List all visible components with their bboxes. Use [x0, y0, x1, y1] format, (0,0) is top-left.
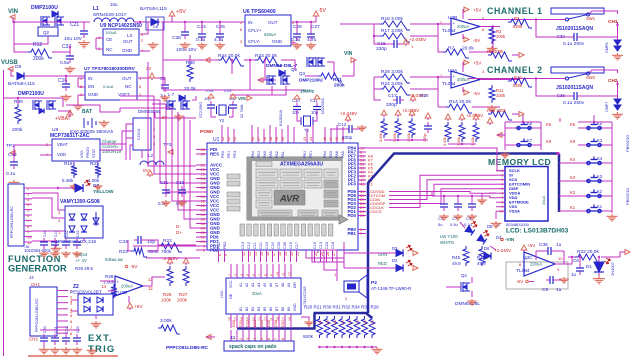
svg-text:D-: D- — [176, 224, 181, 229]
svg-text:ATXMEGA256A3U: ATXMEGA256A3U — [280, 162, 323, 168]
svg-text:TP3: TP3 — [163, 142, 172, 147]
svg-text:CHANNEL 2: CHANNEL 2 — [487, 65, 543, 75]
svg-text:43: 43 — [233, 137, 237, 141]
svg-text:+5V: +5V — [527, 243, 536, 248]
svg-text:1.00k: 1.00k — [88, 178, 100, 183]
U1 grey die photo — [247, 157, 342, 220]
wire U3A output — [480, 79, 520, 81]
svg-text:PD0: PD0 — [347, 213, 356, 218]
bus thick navy ladder bar — [237, 327, 315, 330]
svg-text:C43: C43 — [76, 230, 80, 237]
svg-text:J3: J3 — [230, 335, 235, 340]
svg-text:330p: 330p — [376, 46, 387, 52]
svg-text:GND: GND — [272, 39, 283, 44]
transistor Q2 symbol — [41, 16, 50, 26]
svg-text:C21: C21 — [259, 242, 263, 249]
wire left edge long vertical — [3, 70, 5, 356]
svg-text:VIN: VIN — [8, 9, 18, 15]
keyboard wires right column — [578, 127, 586, 129]
svg-text:YELLOW: YELLOW — [93, 189, 114, 195]
svg-text:NC: NC — [125, 84, 132, 89]
svg-text:+5V: +5V — [473, 61, 482, 66]
wire LED chain — [460, 222, 465, 228]
svg-text:6: 6 — [267, 338, 271, 340]
svg-text:300k: 300k — [148, 249, 159, 255]
svg-text:750k: 750k — [161, 249, 172, 255]
svg-text:-5V: -5V — [318, 8, 326, 14]
wire U8 STAT to CON4 — [100, 124, 133, 144]
svg-text:R19: R19 — [64, 161, 73, 166]
resistor trio R5 R6 R8 3.00k — [381, 118, 387, 138]
svg-text:10k: 10k — [371, 320, 375, 325]
svg-text:42: 42 — [227, 137, 231, 141]
svg-text:330p: 330p — [342, 135, 353, 140]
svg-text:PE2: PE2 — [257, 151, 261, 158]
svg-text:46: 46 — [251, 137, 255, 141]
wire U3A -5V supply — [462, 87, 464, 92]
svg-text:SW1: SW1 — [586, 16, 596, 21]
wire U6 OUT — [291, 21, 316, 23]
crystal Y1 16MHz — [301, 116, 313, 126]
svg-text:C40: C40 — [43, 230, 47, 237]
svg-text:C14: C14 — [206, 88, 214, 93]
svg-text:U6 TPS60400: U6 TPS60400 — [243, 9, 276, 15]
svg-text:DMP2100U: DMP2100U — [31, 5, 58, 11]
transistor Q6 DMN65-D8L-7 (left) — [167, 100, 176, 110]
svg-text:C25: C25 — [216, 24, 225, 30]
svg-text:10: 10 — [558, 256, 563, 261]
svg-text:330p: 330p — [423, 134, 427, 142]
power +2.048V near C17 — [410, 95, 416, 100]
wire PB4 to LCD SCLK — [366, 148, 505, 171]
svg-text:10k: 10k — [318, 320, 322, 325]
svg-text:PA5: PA5 — [341, 151, 345, 158]
wire C34/R23 loop — [128, 240, 131, 251]
ground D1 — [593, 276, 605, 284]
ground LCD VSS — [495, 211, 497, 219]
svg-text:B2: B2 — [245, 307, 249, 311]
svg-text:C6: C6 — [573, 258, 579, 263]
svg-text:C31: C31 — [160, 180, 169, 185]
svg-text:200uA: 200uA — [457, 77, 469, 82]
svg-text:200uA: 200uA — [457, 24, 469, 29]
svg-text:10k: 10k — [356, 320, 360, 325]
wire LCDCLK to LCD SI — [389, 175, 496, 207]
capacitor row C1 C7 C4 (decoupling) — [443, 196, 445, 200]
svg-text:C23: C23 — [265, 242, 269, 249]
U1 left small cell boxes lower — [227, 192, 240, 197]
ground ladder — [372, 347, 383, 354]
svg-text:K3: K3 — [597, 174, 603, 179]
svg-text:200k: 200k — [33, 56, 44, 62]
svg-text:K3: K3 — [597, 138, 603, 143]
svg-text:C34: C34 — [119, 239, 128, 245]
svg-text:RES: RES — [210, 152, 219, 157]
svg-text:640uA: 640uA — [264, 32, 276, 37]
svg-text:D7: D7 — [93, 183, 99, 189]
power -5V right of U6 — [315, 16, 317, 22]
keyboard bus taps — [559, 162, 578, 164]
svg-text:C12: C12 — [247, 242, 251, 249]
svg-text:3V: 3V — [146, 66, 151, 71]
wire U9 CE — [96, 37, 103, 39]
svg-text:B1: B1 — [239, 307, 243, 311]
svg-text:100k: 100k — [496, 34, 506, 39]
svg-text:PA0: PA0 — [263, 151, 267, 158]
svg-text:R28: R28 — [105, 274, 114, 279]
svg-text:0.1u: 0.1u — [6, 171, 16, 177]
wire +5V rail top — [163, 21, 236, 23]
svg-text:C27: C27 — [311, 24, 320, 30]
resistor R9 100k — [488, 52, 512, 61]
svg-text:PA4: PA4 — [251, 151, 255, 158]
svg-text:CFLY+: CFLY+ — [248, 28, 262, 33]
keyboard top joining wires — [505, 121, 541, 123]
svg-text:48: 48 — [335, 137, 339, 141]
long wires from fgen to right — [146, 245, 205, 247]
svg-text:53kaa aw: 53kaa aw — [105, 257, 124, 262]
svg-text:-5V: -5V — [473, 91, 481, 96]
svg-text:K6: K6 — [546, 122, 552, 127]
svg-text:K2: K2 — [570, 190, 576, 195]
ground at U9 GND — [140, 50, 150, 52]
wire VDD rail to LCD VDD — [480, 196, 496, 198]
keyboard left column button K8 — [516, 122, 532, 130]
svg-text:0.1u: 0.1u — [291, 37, 301, 43]
svg-text:JS102011SAQN: JS102011SAQN — [556, 26, 593, 32]
capacitor C36 0.1u 250v — [570, 95, 574, 97]
svg-text:ST2159G: ST2159G — [199, 102, 203, 118]
svg-text:PB1: PB1 — [347, 231, 356, 236]
wires U3D — [100, 280, 115, 282]
svg-text:GND: GND — [122, 48, 133, 53]
TVS diodes inside — [69, 214, 75, 220]
wire +5V rail to R44 row — [163, 22, 190, 60]
svg-text:44: 44 — [309, 137, 313, 141]
svg-text:SRN4026-101Y: SRN4026-101Y — [93, 12, 127, 18]
svg-text:PPPC081LGBN-RC: PPPC081LGBN-RC — [35, 298, 39, 332]
svg-text:+5V: +5V — [176, 9, 186, 15]
wire D1 top — [598, 257, 600, 262]
svg-text:B3: B3 — [251, 307, 255, 311]
speaker P2 AT-1348-TF-LW80-R — [344, 281, 359, 292]
svg-text:1u: 1u — [556, 287, 562, 293]
svg-text:R22: R22 — [163, 238, 172, 244]
svg-text:12: 12 — [148, 286, 153, 291]
svg-text:KX2520A: KX2520A — [279, 109, 283, 126]
svg-text:PA3: PA3 — [329, 151, 333, 158]
svg-text:C15: C15 — [289, 242, 293, 249]
ground rail bottom left — [28, 355, 118, 357]
svg-text:PA4: PA4 — [323, 151, 327, 158]
svg-text:GENERATOR: GENERATOR — [8, 264, 67, 274]
wire from R23 to J6 — [133, 245, 146, 247]
wire U3A +5V supply — [462, 62, 464, 72]
svg-text:3.00k: 3.00k — [379, 133, 383, 142]
LED D7 YELLOW — [75, 184, 83, 192]
wire Q2 drain to L1 — [66, 21, 90, 23]
svg-text:VCC: VCC — [229, 280, 233, 288]
wire horizontal rail y90 — [163, 89, 305, 91]
svg-text:PF0: PF0 — [348, 182, 357, 187]
svg-text:C26: C26 — [293, 24, 302, 30]
ground channel 2 — [487, 105, 498, 112]
U1 die cell text marks — [258, 171, 276, 173]
wire CON4 pins 3-4 — [126, 138, 133, 160]
svg-text:PE1: PE1 — [309, 151, 313, 158]
U1 bottom pin cell boxes — [240, 224, 245, 236]
svg-text:-5V: -5V — [130, 264, 138, 270]
svg-text:34uA: 34uA — [542, 196, 546, 205]
svg-text:spack caps on pads: spack caps on pads — [229, 344, 277, 350]
wires crystal Y2 to MCU — [210, 112, 212, 117]
svg-text:PA6: PA6 — [335, 151, 339, 158]
svg-text:0.1u: 0.1u — [464, 222, 472, 227]
wire R41 left — [305, 75, 318, 77]
svg-text:7: 7 — [274, 338, 278, 340]
svg-text:R22 20.0k: R22 20.0k — [577, 249, 599, 255]
svg-text:100k: 100k — [496, 93, 506, 98]
svg-text:C13: C13 — [319, 242, 323, 249]
wire verticals from R44 row down — [249, 60, 251, 90]
U1 die arrow — [339, 215, 348, 224]
svg-text:K9: K9 — [546, 139, 552, 144]
svg-text:-3V: -3V — [160, 115, 168, 120]
svg-text:C17: C17 — [295, 242, 299, 249]
svg-text:C19: C19 — [313, 242, 317, 249]
wire VIN rail down to R12 — [14, 21, 63, 23]
svg-text:3.00k: 3.00k — [443, 137, 447, 146]
svg-text:JS102011SAQN: JS102011SAQN — [556, 85, 593, 91]
svg-text:J4: J4 — [29, 275, 34, 280]
ground under C37 — [65, 66, 76, 73]
svg-text:5: 5 — [260, 338, 264, 340]
svg-text:+/- 4V: +/- 4V — [75, 258, 87, 263]
svg-text:Q5: Q5 — [291, 67, 298, 72]
wire R29 to U3A — [410, 76, 451, 78]
svg-text:100k: 100k — [161, 298, 172, 303]
svg-text:U9 NCP1402SN50: U9 NCP1402SN50 — [100, 23, 142, 29]
node 0V — [147, 170, 153, 175]
svg-text:2: 2 — [239, 338, 243, 340]
svg-text:1u: 1u — [556, 242, 562, 248]
svg-text:B9: B9 — [287, 307, 291, 311]
svg-text:D00: D00 — [232, 320, 236, 327]
svg-text:PPPC091LD8N-RC: PPPC091LD8N-RC — [166, 345, 209, 351]
capacitor row fgen (4 electrolytics) — [43, 238, 45, 242]
svg-text:0.5u: 0.5u — [450, 222, 458, 227]
svg-text:74LVC245: 74LVC245 — [302, 286, 307, 305]
svg-text:K7: K7 — [527, 138, 533, 143]
U1 left pin wires — [196, 149, 207, 151]
power +VBAT — [58, 111, 70, 115]
ground right of U10 — [304, 320, 314, 326]
wire Q1 gate rail — [17, 98, 19, 104]
svg-text:48: 48 — [269, 137, 273, 141]
U1 bottom pin wires — [218, 250, 220, 262]
wire VUSB to D9 — [11, 69, 14, 76]
svg-text:43: 43 — [303, 137, 307, 141]
svg-text:C32: C32 — [8, 152, 17, 158]
resistor R15 100k — [488, 111, 512, 120]
svg-text:PB3: PB3 — [223, 242, 227, 249]
svg-text:10k: 10k — [363, 320, 367, 325]
svg-text:3.00k: 3.00k — [407, 133, 411, 142]
wire LCDVDD to LCD VDDA — [389, 192, 496, 194]
svg-text:+2.040V: +2.040V — [494, 248, 512, 253]
svg-text:D6: D6 — [484, 246, 490, 251]
svg-text:-5V: -5V — [473, 38, 481, 43]
svg-text:-5V: -5V — [516, 279, 524, 284]
svg-text:D03: D03 — [253, 320, 257, 327]
svg-text:PB2: PB2 — [217, 242, 221, 249]
svg-text:VDD: VDD — [57, 152, 66, 157]
svg-text:C33: C33 — [277, 242, 281, 249]
capacitor C9 1u — [546, 279, 550, 281]
svg-text:D5: D5 — [487, 224, 493, 229]
svg-text:+: + — [453, 74, 456, 79]
svg-text:TL064: TL064 — [516, 268, 530, 274]
svg-text:PROG: PROG — [86, 147, 90, 158]
svg-text:D+: D+ — [176, 230, 182, 235]
wire R18 to U3B — [410, 23, 451, 25]
svg-text:D2: D2 — [392, 258, 398, 263]
svg-text:+2.048V: +2.048V — [340, 111, 358, 116]
wire cap row rail — [432, 195, 480, 197]
svg-text:46: 46 — [323, 137, 327, 141]
svg-text:C13: C13 — [224, 88, 232, 93]
svg-text:CH2: CH2 — [29, 337, 38, 342]
svg-text:VAMY1300-GS08: VAMY1300-GS08 — [60, 199, 100, 205]
svg-text:R14 20.0k: R14 20.0k — [449, 99, 471, 105]
svg-text:PA2: PA2 — [275, 151, 279, 158]
crystal Y2 32.768k — [217, 105, 229, 115]
svg-text:Q3: Q3 — [299, 71, 306, 76]
wire U9 LX to L1 node — [140, 22, 148, 34]
svg-text:A9: A9 — [287, 283, 291, 287]
svg-text:PE0: PE0 — [221, 151, 225, 158]
svg-text:DMP2100U: DMP2100U — [18, 91, 44, 97]
svg-text:R2: R2 — [514, 16, 520, 21]
svg-text:Y2: Y2 — [219, 118, 225, 123]
svg-text:TL064: TL064 — [442, 81, 456, 87]
U1 die bottom bar — [252, 217, 342, 221]
svg-text:CON4: CON4 — [136, 128, 141, 140]
svg-text:+VBAT: +VBAT — [55, 116, 71, 122]
svg-text:D9: D9 — [15, 64, 21, 70]
svg-text:10u: 10u — [110, 2, 118, 7]
svg-text:10k: 10k — [348, 320, 352, 325]
svg-text:VIN: VIN — [344, 51, 353, 57]
svg-text:DMP2100U: DMP2100U — [299, 78, 323, 83]
ground TVS — [83, 238, 85, 241]
svg-text:C7: C7 — [452, 216, 458, 221]
svg-text:D04: D04 — [260, 320, 264, 327]
svg-text:200k: 200k — [334, 83, 345, 89]
svg-text:200k: 200k — [12, 127, 23, 133]
svg-text:L2: L2 — [148, 153, 154, 158]
wires caps row — [43, 345, 45, 347]
svg-text:GND: GND — [88, 92, 99, 97]
svg-text:50348D1000: 50348D1000 — [506, 222, 530, 227]
power +5V U3D — [127, 303, 133, 308]
box spack caps on pads — [224, 341, 294, 351]
U10 bottom wires — [230, 314, 232, 328]
wire U6 GND to ground — [291, 42, 296, 44]
wire LCDDISP to LCD DISP — [389, 189, 496, 204]
pin arrow left of R44 — [205, 58, 210, 63]
keyboard left column button K7 — [516, 139, 532, 147]
Z2 diodes — [84, 297, 90, 303]
wire D9 to U7 — [25, 75, 85, 77]
wire L1 to diode BAT54 — [134, 21, 160, 23]
svg-text:4.7u: 4.7u — [214, 37, 224, 43]
svg-text:40: 40 — [281, 137, 285, 141]
wire R44 left to R40 — [190, 59, 218, 61]
svg-text:200k: 200k — [177, 298, 188, 303]
svg-text:PB1: PB1 — [303, 151, 307, 158]
wire U3B output — [480, 26, 500, 28]
svg-text:NC: NC — [106, 47, 113, 52]
ground U7 GND — [78, 94, 85, 96]
bus thick navy vertical — [368, 154, 558, 314]
svg-text:D07: D07 — [281, 320, 285, 327]
svg-text:3.00k: 3.00k — [160, 318, 172, 324]
power +5V (top left rail) — [161, 16, 172, 22]
svg-text:20.0k: 20.0k — [462, 46, 474, 52]
svg-text:C42: C42 — [65, 230, 69, 237]
svg-text:IN: IN — [88, 76, 93, 81]
svg-text:R40: R40 — [186, 60, 195, 66]
svg-text:IN: IN — [248, 20, 253, 25]
wire D7 anode — [32, 187, 75, 189]
svg-text:N0225GA: N0225GA — [321, 98, 325, 114]
svg-text:920k: 920k — [513, 24, 523, 29]
svg-text:C35: C35 — [283, 242, 287, 249]
svg-text:R9 100k: R9 100k — [487, 49, 504, 54]
svg-text:B4: B4 — [257, 307, 261, 311]
svg-text:CMP6: CMP6 — [605, 42, 609, 53]
svg-text:R12: R12 — [33, 42, 42, 48]
svg-text:5.36k: 5.36k — [62, 178, 74, 183]
U1 die cell blocks — [256, 169, 278, 178]
svg-text:10k: 10k — [326, 320, 330, 325]
svg-text:C9: C9 — [542, 287, 548, 293]
svg-text:DMN65D8L: DMN65D8L — [138, 109, 161, 114]
resistor ladder 8 vertical resistors — [317, 316, 323, 338]
svg-text:4: 4 — [253, 338, 257, 340]
svg-text:0.1u 250v: 0.1u 250v — [563, 100, 585, 106]
svg-text:CE: CE — [106, 37, 112, 42]
svg-text:VSSA: VSSA — [509, 209, 520, 214]
svg-text:.J6: .J6 — [24, 244, 30, 249]
svg-text:PE3: PE3 — [233, 151, 237, 158]
svg-text:A7: A7 — [275, 283, 279, 287]
svg-text:920k: 920k — [513, 83, 523, 88]
wire Q2 gate to R12 node — [14, 36, 48, 44]
svg-text:R26: R26 — [163, 292, 172, 297]
svg-text:200uA: 200uA — [121, 284, 133, 289]
svg-text:D02: D02 — [246, 320, 250, 327]
svg-text:CH1: CH1 — [608, 19, 618, 25]
svg-text:3: 3 — [246, 338, 250, 340]
svg-text:0.5u: 0.5u — [60, 60, 70, 66]
wire U7 EN tie — [78, 77, 85, 79]
svg-text:D1: D1 — [586, 264, 592, 269]
svg-text:20.0k: 20.0k — [184, 86, 196, 92]
svg-text:U7 TPS780180300DRV: U7 TPS780180300DRV — [84, 66, 136, 72]
pin arrow keyboard left — [497, 133, 502, 138]
